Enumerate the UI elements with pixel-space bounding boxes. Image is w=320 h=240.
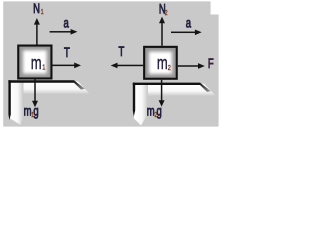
- svg-text:F: F: [208, 56, 214, 71]
- label N1: [33, 2, 44, 17]
- table corner: beveled fading tip of top edge (left): [74, 80, 85, 89]
- table corner: black top edge (left): [8, 80, 74, 82]
- arrow N2 (normal force, up): [159, 17, 165, 46]
- label m2: [157, 54, 171, 74]
- arrow m2g (weight, down): [159, 80, 165, 107]
- svg-text:N: N: [33, 2, 40, 17]
- table corner: beveled fading tip of top edge (right): [200, 83, 211, 92]
- svg-text:2: 2: [165, 9, 168, 17]
- svg-text:m: m: [157, 54, 168, 74]
- label a (left): [64, 16, 70, 31]
- page background: [0, 0, 220, 133]
- table corner: vertical arm fill (right): [134, 84, 148, 126]
- arrow F (applied force, right-pointing): [178, 63, 205, 69]
- label N2: [159, 2, 168, 17]
- svg-text:a: a: [186, 16, 192, 31]
- gray canvas: [3, 1, 218, 126]
- svg-text:g: g: [157, 104, 162, 119]
- svg-text:a: a: [64, 16, 70, 31]
- white notch top-right: [211, 0, 220, 15]
- label m2g: [147, 104, 162, 119]
- svg-text:T: T: [119, 44, 125, 59]
- arrow a (acceleration, right diagram): [171, 29, 202, 35]
- label T (left): [64, 45, 70, 60]
- arrow T (tension, right-pointing, left diagram): [53, 63, 82, 69]
- table corner: vertical arm fill (left): [10, 81, 24, 125]
- label m1: [31, 54, 46, 74]
- block m1: [17, 45, 52, 80]
- label m1g: [24, 104, 39, 119]
- table corner: horizontal slab fill (left): [10, 81, 91, 94]
- label a (right): [186, 16, 192, 31]
- svg-text:T: T: [64, 45, 70, 60]
- arrow m1g (weight, down): [32, 80, 38, 108]
- svg-text:2: 2: [168, 64, 171, 72]
- arrow N1 (normal force, up): [34, 18, 40, 45]
- block m2: [143, 46, 178, 80]
- label T (right): [119, 44, 125, 59]
- table corner: black top edge (right): [133, 83, 200, 85]
- table corner: black left edge (left): [8, 80, 10, 120]
- svg-text:m: m: [31, 54, 42, 74]
- svg-text:1: 1: [42, 64, 45, 72]
- table corner: horizontal slab fill (right): [134, 84, 217, 97]
- arrow T (tension, left-pointing, right diagram): [111, 63, 144, 69]
- label F: [208, 56, 214, 71]
- table corner: black left edge (right): [133, 83, 135, 117]
- arrow a (acceleration, left diagram): [50, 29, 78, 35]
- svg-text:g: g: [33, 104, 38, 119]
- svg-text:1: 1: [41, 8, 44, 16]
